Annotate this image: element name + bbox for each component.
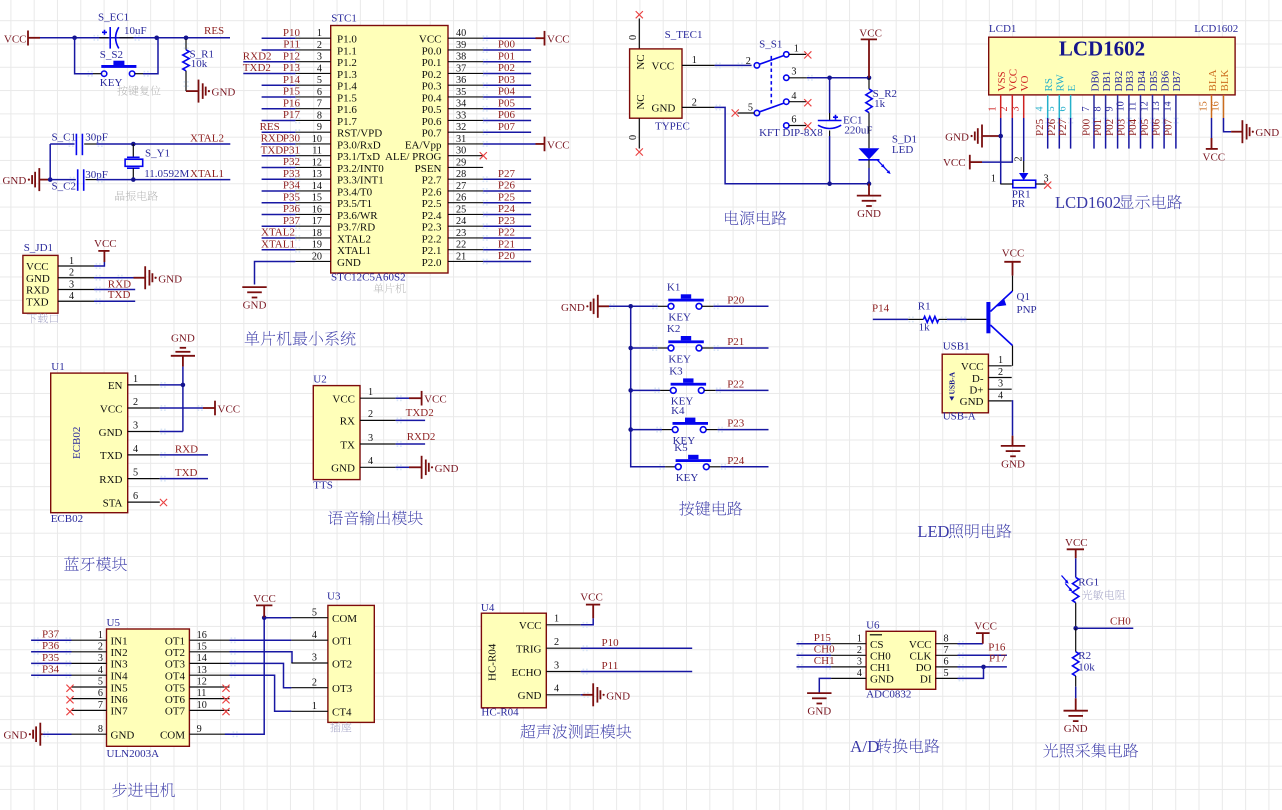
- svg-text:14: 14: [1163, 101, 1174, 111]
- pin 8 DB1 (LCD): [1092, 71, 1113, 118]
- svg-text:P04: P04: [498, 86, 516, 98]
- svg-text:COM: COM: [332, 613, 357, 625]
- svg-text:VCC: VCC: [1002, 248, 1025, 260]
- power port VCC (U1): [215, 401, 240, 416]
- svg-text:BLA: BLA: [1207, 69, 1219, 91]
- svg-text:P0.0: P0.0: [422, 45, 442, 57]
- power port VCC (download): [94, 238, 117, 269]
- svg-text:E: E: [1066, 85, 1078, 92]
- svg-text:3: 3: [368, 433, 373, 444]
- wire LCD pin1 VSS down: [1000, 118, 1002, 184]
- wire LCD pin 6 net P27: [1057, 118, 1073, 149]
- svg-text:P3.1/TxD: P3.1/TxD: [337, 151, 380, 163]
- svg-text:OT3: OT3: [332, 683, 353, 695]
- svg-text:ALE/ PROG: ALE/ PROG: [385, 151, 442, 163]
- svg-text:P0.6: P0.6: [422, 116, 442, 128]
- wire LCD pin 12 net P05: [1139, 118, 1155, 149]
- svg-text:21: 21: [456, 251, 466, 262]
- wire USB pin4 to ground: [1011, 401, 1014, 446]
- node junction EC1 top: [827, 76, 832, 81]
- wire U6 pin2 net CH0: [797, 644, 836, 659]
- svg-text:2: 2: [98, 641, 103, 652]
- svg-text:4: 4: [368, 456, 373, 467]
- svg-text:OT5: OT5: [165, 682, 186, 694]
- svg-text:U1: U1: [51, 361, 64, 373]
- svg-text:1: 1: [998, 355, 1003, 366]
- svg-text:P2.2: P2.2: [422, 233, 442, 245]
- svg-text:DB3: DB3: [1124, 70, 1136, 91]
- svg-text:RXD: RXD: [26, 285, 49, 297]
- svg-text:3: 3: [133, 421, 138, 432]
- svg-text:P1.2: P1.2: [337, 57, 357, 69]
- wire U2 pin1 VCC: [396, 395, 422, 401]
- svg-text:GND: GND: [1064, 723, 1088, 735]
- svg-text:S_JD1: S_JD1: [24, 242, 53, 254]
- LED S_D1: [859, 134, 917, 184]
- svg-text:PR: PR: [1012, 198, 1026, 210]
- svg-text:GND: GND: [158, 273, 182, 285]
- svg-text:30: 30: [456, 146, 466, 157]
- svg-text:4: 4: [857, 668, 862, 679]
- svg-text:15: 15: [1198, 101, 1209, 111]
- resistor R2 10k: [1072, 628, 1095, 710]
- svg-text:P14: P14: [872, 302, 890, 314]
- wire XTAL2 net: [97, 143, 231, 145]
- wire STC1 pin 7: [262, 97, 301, 111]
- switch K4 KEY: [631, 405, 723, 447]
- svg-text:2: 2: [692, 97, 697, 108]
- svg-text:U3: U3: [327, 591, 341, 603]
- svg-text:12: 12: [1139, 101, 1150, 111]
- wire key K4 net P23: [718, 418, 769, 430]
- connector TYPEC pin names: [635, 54, 690, 132]
- svg-text:RXD2: RXD2: [407, 431, 436, 443]
- svg-text:9: 9: [317, 122, 322, 133]
- wire STC1 pin 12: [262, 156, 301, 170]
- svg-text:P36: P36: [42, 640, 60, 652]
- section title 蓝牙模块: [64, 557, 127, 572]
- svg-text:1: 1: [857, 633, 862, 644]
- svg-text:P27: P27: [498, 168, 516, 180]
- no connect switch pin5: [732, 109, 739, 116]
- svg-text:IN3: IN3: [111, 659, 129, 671]
- wire U5 OT4 to U3: [230, 672, 292, 711]
- power port VCC (reset circuit): [4, 31, 40, 46]
- svg-text:GND: GND: [960, 396, 984, 408]
- svg-text:6: 6: [317, 87, 322, 98]
- svg-text:GND: GND: [435, 463, 459, 475]
- wire U6 DO net P17: [958, 653, 1007, 670]
- svg-text:P03: P03: [498, 74, 516, 86]
- svg-text:LED: LED: [917, 522, 949, 541]
- svg-text:P05: P05: [1139, 118, 1151, 136]
- IC U6 ADC0832 body: [831, 620, 957, 701]
- svg-text:GND: GND: [3, 730, 27, 742]
- photoresistor RG1: [1062, 558, 1126, 628]
- resistor R1 1k: [918, 301, 987, 334]
- wire U1 GND bus: [160, 367, 183, 435]
- wire U6 pin8 VCC: [958, 633, 983, 647]
- svg-text:USB1: USB1: [943, 341, 970, 353]
- pin 1 VSS (LCD): [988, 71, 1009, 118]
- svg-text:P36: P36: [283, 203, 301, 215]
- svg-text:32: 32: [456, 122, 466, 133]
- svg-text:P11: P11: [283, 39, 300, 51]
- wire STC1 pin 17: [262, 215, 301, 229]
- node junction ground rail: [827, 181, 832, 186]
- svg-text:3: 3: [857, 657, 862, 668]
- svg-text:RW: RW: [1055, 74, 1067, 92]
- wire LCD pin 7 net P00: [1081, 118, 1097, 149]
- svg-text:KEY: KEY: [668, 312, 691, 324]
- svg-text:31: 31: [456, 134, 466, 145]
- wire STC1 pin 37 net P02: [483, 62, 531, 76]
- svg-text:KFT DIP-8X8: KFT DIP-8X8: [759, 127, 823, 139]
- wire U4 TRIG net P10: [581, 637, 693, 651]
- wire STC1 pin 6: [262, 86, 301, 100]
- svg-text:8: 8: [944, 633, 949, 644]
- section title LED照明电路: [917, 522, 1011, 541]
- svg-text:1: 1: [133, 374, 138, 385]
- wire LCD pin 4 net P25: [1034, 118, 1050, 149]
- wire LCD pin2 VCC: [982, 118, 1012, 162]
- svg-text:13: 13: [197, 665, 207, 676]
- switch K2 KEY: [631, 323, 719, 365]
- wire LCD pin 10 net P03: [1115, 118, 1131, 149]
- svg-text:17: 17: [312, 216, 322, 227]
- wire STC1 pin 27 net P26: [483, 180, 531, 194]
- svg-text:RES: RES: [260, 121, 280, 133]
- svg-text:GND: GND: [606, 690, 630, 702]
- svg-text:DB0: DB0: [1089, 70, 1101, 91]
- svg-text:P20: P20: [498, 250, 516, 262]
- svg-text:ECB02: ECB02: [71, 427, 83, 459]
- svg-text:P3.0/RxD: P3.0/RxD: [337, 139, 381, 151]
- svg-text:PSEN: PSEN: [415, 163, 442, 175]
- svg-text:DB7: DB7: [1171, 70, 1183, 91]
- svg-text:VCC: VCC: [580, 592, 603, 604]
- svg-text:14: 14: [197, 653, 207, 664]
- ground GND (reset): [199, 80, 236, 103]
- wire STC1 pin 14: [262, 180, 301, 194]
- svg-text:IN7: IN7: [111, 706, 129, 718]
- wire U5 OT3 to U3: [230, 661, 292, 688]
- wire U2 RX net TXD2: [396, 407, 434, 423]
- transistor Q1 PNP: [986, 276, 1036, 366]
- wire U1 VCC: [160, 405, 215, 411]
- svg-text:P3.3/INT1: P3.3/INT1: [337, 175, 384, 187]
- ground GND (crystal): [2, 168, 39, 191]
- connector U3 插座 body: [291, 591, 374, 733]
- svg-text:8: 8: [1092, 106, 1103, 111]
- svg-text:10: 10: [312, 134, 322, 145]
- wire LCD pin 9 net P02: [1104, 118, 1120, 149]
- net label RES: [204, 25, 224, 37]
- svg-text:7: 7: [98, 700, 103, 711]
- svg-text:13: 13: [312, 169, 322, 180]
- node junction resistor branch: [184, 36, 189, 41]
- wire STC1 pin 39 net P00: [483, 39, 531, 53]
- svg-text:P27: P27: [1057, 118, 1069, 136]
- svg-text:DB6: DB6: [1159, 70, 1171, 91]
- svg-text:P0.7: P0.7: [422, 128, 442, 140]
- svg-text:STC1: STC1: [331, 13, 357, 25]
- wire STC1 pin 13: [262, 168, 301, 182]
- svg-text:P1.3: P1.3: [337, 69, 357, 81]
- svg-text:38: 38: [456, 52, 466, 63]
- svg-text:XTAL1: XTAL1: [261, 238, 295, 250]
- no connect switch pin6: [804, 122, 811, 129]
- svg-text:P21: P21: [498, 238, 515, 250]
- section title 单片机最小系统: [245, 331, 356, 346]
- svg-text:16: 16: [312, 204, 322, 215]
- svg-text:IN5: IN5: [111, 682, 129, 694]
- svg-text:S_C2: S_C2: [52, 180, 76, 192]
- svg-text:CH0: CH0: [1110, 615, 1131, 627]
- pin 14 DB7 (LCD): [1163, 70, 1184, 118]
- wire key K5 net P24: [721, 455, 769, 467]
- svg-text:U5: U5: [107, 617, 121, 629]
- power port VCC (U4): [580, 592, 603, 605]
- svg-text:LCD1602: LCD1602: [1055, 193, 1121, 212]
- pin 12 DB5 (LCD): [1139, 70, 1160, 118]
- svg-text:P16: P16: [988, 641, 1006, 653]
- svg-text:VCC: VCC: [859, 28, 882, 40]
- svg-text:VCC: VCC: [1065, 537, 1088, 549]
- svg-text:GND: GND: [243, 300, 267, 312]
- svg-text:10k: 10k: [191, 58, 208, 70]
- svg-text:P25: P25: [1034, 118, 1046, 136]
- svg-text:K1: K1: [667, 282, 680, 294]
- svg-text:R1: R1: [918, 301, 931, 313]
- svg-text:VCC: VCC: [94, 238, 117, 250]
- svg-text:USB-A: USB-A: [943, 411, 976, 423]
- svg-text:4: 4: [1035, 106, 1046, 111]
- svg-text:29: 29: [456, 157, 466, 168]
- node junction right of capacitor: [154, 36, 159, 41]
- wire STC1 pin 3: [243, 50, 300, 64]
- no connect U5 pin12: [222, 685, 229, 692]
- net label XTAL1: [190, 168, 224, 180]
- svg-text:P10: P10: [283, 27, 301, 39]
- capacitor S_EC1 10uF: [94, 12, 147, 49]
- svg-text:GND: GND: [561, 302, 585, 314]
- wire STC1 pin 31 EA/Vpp VCC: [483, 141, 545, 147]
- svg-text:OT6: OT6: [165, 694, 186, 706]
- svg-text:P02: P02: [1104, 119, 1116, 136]
- svg-text:DB4: DB4: [1136, 70, 1148, 91]
- svg-text:OT2: OT2: [332, 658, 352, 670]
- svg-text:P21: P21: [727, 336, 744, 348]
- svg-text:P0.3: P0.3: [422, 81, 442, 93]
- wire STC1 pin 40 VCC: [483, 35, 545, 41]
- no connect U1 STA: [160, 499, 167, 506]
- svg-text:TXD: TXD: [100, 450, 123, 462]
- wire STC1 pin 11: [261, 144, 301, 158]
- svg-text:P3.4/T0: P3.4/T0: [337, 186, 373, 198]
- svg-text:PNP: PNP: [1017, 304, 1037, 316]
- svg-text:2: 2: [554, 637, 559, 648]
- svg-text:4: 4: [998, 390, 1003, 401]
- svg-text:P20: P20: [727, 294, 745, 306]
- svg-text:20: 20: [312, 251, 322, 262]
- IC U5 ULN2003A body: [72, 617, 230, 760]
- svg-text:2: 2: [746, 56, 751, 67]
- svg-text:RXD: RXD: [99, 474, 122, 486]
- power port VCC (pin31): [545, 137, 570, 152]
- svg-text:P3.2/INT0: P3.2/INT0: [337, 163, 384, 175]
- svg-text:OT7: OT7: [165, 706, 186, 718]
- svg-text:TX: TX: [340, 439, 355, 451]
- wire STC1 pin 32 net P07: [483, 121, 531, 135]
- svg-text:P24: P24: [498, 203, 516, 215]
- svg-text:P32: P32: [283, 156, 300, 168]
- svg-text:3: 3: [98, 653, 103, 664]
- wire U5 OT2 to U3: [230, 649, 293, 663]
- svg-text:K4: K4: [671, 405, 685, 417]
- svg-text:RX: RX: [340, 416, 355, 428]
- section title LCD1602显示电路: [1055, 193, 1182, 212]
- wire U6 CLK net P16: [958, 641, 1007, 658]
- svg-text:9: 9: [197, 724, 202, 735]
- wire STC1 pin 18: [261, 227, 300, 241]
- svg-text:VCC: VCC: [961, 361, 984, 373]
- svg-text:19: 19: [312, 240, 322, 251]
- power port VCC (U6): [974, 620, 997, 633]
- svg-text:14: 14: [312, 181, 322, 192]
- svg-text:P33: P33: [283, 168, 301, 180]
- svg-text:K3: K3: [669, 366, 683, 378]
- svg-text:9: 9: [1104, 106, 1115, 111]
- svg-text:4: 4: [312, 630, 317, 641]
- svg-text:1: 1: [794, 44, 799, 55]
- no connect switch pin4: [804, 99, 811, 106]
- svg-text:3: 3: [554, 660, 559, 671]
- wire U4 pin4 ground: [581, 692, 594, 698]
- svg-text:1: 1: [368, 387, 373, 398]
- svg-text:2: 2: [368, 409, 373, 420]
- svg-text:0: 0: [628, 35, 639, 40]
- svg-text:33: 33: [456, 110, 466, 121]
- svg-text:OT4: OT4: [165, 671, 186, 683]
- wire STC1 pin 1: [262, 27, 301, 41]
- svg-text:3: 3: [317, 52, 322, 63]
- switch K3 KEY: [631, 366, 721, 408]
- svg-text:18: 18: [312, 228, 322, 239]
- wire TYPEC pin1 to switch: [682, 55, 752, 68]
- svg-text:RXD: RXD: [175, 443, 198, 455]
- pin 9 DB2 (LCD): [1104, 71, 1125, 118]
- svg-text:GND: GND: [807, 706, 831, 718]
- svg-text:P1.5: P1.5: [337, 92, 357, 104]
- svg-text:IN2: IN2: [111, 647, 128, 659]
- svg-text:GND: GND: [870, 674, 894, 686]
- svg-text:4: 4: [98, 665, 103, 676]
- potentiometer PR1: [991, 173, 1049, 210]
- svg-text:3: 3: [791, 67, 796, 78]
- svg-text:GND: GND: [26, 273, 50, 285]
- wire VCC to U3 COM: [264, 617, 291, 619]
- svg-text:NC: NC: [635, 94, 647, 109]
- svg-text:S_EC1: S_EC1: [98, 12, 129, 24]
- svg-text:11.0592M: 11.0592M: [144, 168, 189, 180]
- wire U2 pin4 ground: [396, 464, 422, 470]
- svg-text:P13: P13: [283, 62, 301, 74]
- svg-text:7: 7: [317, 99, 322, 110]
- svg-text:1: 1: [988, 106, 999, 111]
- svg-text:ECHO: ECHO: [512, 667, 542, 679]
- node junction CH0: [1073, 626, 1078, 631]
- svg-text:VCC: VCC: [519, 620, 542, 632]
- power port VCC (Q1): [1002, 248, 1025, 276]
- svg-text:ULN2003A: ULN2003A: [107, 748, 160, 760]
- svg-text:S_S1: S_S1: [759, 39, 782, 51]
- no connect U5 pin11: [222, 696, 229, 703]
- wire U1 TXD net RXD: [160, 443, 208, 458]
- net label XTAL2: [190, 132, 224, 144]
- svg-text:6: 6: [133, 491, 138, 502]
- pin 10 DB3 (LCD): [1116, 70, 1137, 118]
- svg-text:CH1: CH1: [870, 662, 891, 674]
- svg-text:P1.0: P1.0: [337, 34, 357, 46]
- no connect switch pin1: [804, 51, 811, 58]
- svg-text:P3.6/WR: P3.6/WR: [337, 210, 378, 222]
- svg-text:P1.1: P1.1: [337, 45, 357, 57]
- svg-text:P00: P00: [498, 39, 516, 51]
- svg-text:VCC: VCC: [1203, 152, 1226, 164]
- svg-text:OT2: OT2: [165, 647, 185, 659]
- svg-text:STA: STA: [103, 497, 123, 509]
- svg-text:HC-R04: HC-R04: [481, 707, 519, 719]
- power port VCC (light): [1065, 537, 1088, 558]
- capacitor S_C2 30pF: [50, 169, 108, 193]
- svg-text:TRIG: TRIG: [516, 644, 542, 656]
- svg-text:S_TEC1: S_TEC1: [665, 29, 703, 41]
- ground GND (U1 top): [171, 333, 195, 367]
- svg-text:P11: P11: [602, 660, 619, 672]
- svg-text:VCC: VCC: [547, 139, 570, 151]
- svg-text:P26: P26: [1046, 118, 1058, 136]
- svg-text:1k: 1k: [874, 98, 886, 110]
- node junction VSS ground: [998, 134, 1003, 139]
- svg-text:15: 15: [312, 193, 322, 204]
- wire vertical crystal branch: [49, 144, 51, 180]
- svg-text:10: 10: [197, 700, 207, 711]
- svg-text:35: 35: [456, 87, 466, 98]
- wire U6 pin3 net CH1: [797, 655, 835, 670]
- svg-text:2: 2: [133, 397, 138, 408]
- power port VCC (power circuit): [859, 28, 882, 78]
- net label RXD wire pin3: [94, 278, 135, 292]
- svg-text:10: 10: [1116, 101, 1127, 111]
- svg-text:26: 26: [456, 193, 466, 204]
- no connect TYPEC bottom: [628, 118, 643, 155]
- svg-text:DB1: DB1: [1101, 71, 1113, 92]
- svg-text:A/D: A/D: [850, 737, 879, 756]
- svg-text:OT1: OT1: [332, 636, 352, 648]
- wire LCD pin 11 net P04: [1127, 118, 1143, 149]
- svg-text:7: 7: [944, 645, 949, 656]
- net label P14 wire: [872, 302, 923, 322]
- capacitor S_C1 30pF: [50, 132, 108, 156]
- svg-text:P15: P15: [814, 632, 832, 644]
- svg-text:P26: P26: [498, 180, 516, 192]
- svg-text:1: 1: [991, 173, 996, 184]
- resistor S_R1 10k: [183, 39, 214, 91]
- svg-text:1: 1: [317, 28, 322, 39]
- svg-text:CT4: CT4: [332, 707, 352, 719]
- svg-text:VSS: VSS: [996, 71, 1008, 91]
